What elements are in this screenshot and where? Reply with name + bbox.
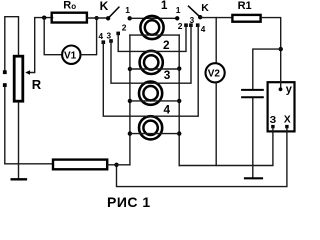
lamp 1: [140, 16, 163, 39]
wire lamp2 bottom: [130, 68, 179, 70]
wire supply loop top: [5, 17, 19, 71]
wire row1 bottom: [130, 34, 179, 36]
wire V2 top branch: [215, 18, 217, 63]
wire R2 right to bus: [108, 164, 130, 166]
wire V1 right branch: [81, 18, 97, 55]
node junction after Ro: [95, 16, 99, 20]
wire capacitor bottom to ground: [252, 98, 254, 178]
svg-text:K: K: [201, 2, 209, 14]
wire bus left: [129, 35, 131, 165]
wire x to lower rail: [117, 128, 287, 187]
ground left: [12, 178, 26, 180]
node bus right lamp4: [177, 131, 181, 135]
svg-text:4: 4: [99, 32, 104, 41]
node junction V1 tap: [42, 16, 46, 20]
node contact 1 right: [175, 16, 179, 20]
node bottom resistor junction: [114, 163, 118, 167]
wire plug lower lead: [4, 87, 6, 164]
node contact 3 left: [109, 39, 113, 43]
node x terminal: [285, 125, 288, 128]
node contact 4 left: [102, 40, 106, 44]
svg-text:o: o: [71, 2, 76, 11]
svg-text:y: y: [286, 84, 293, 96]
node contact 2 left: [116, 32, 120, 36]
node contact 3 right: [189, 23, 193, 27]
wire V2 bottom branch: [215, 83, 217, 165]
svg-text:1: 1: [161, 0, 168, 12]
wire R bottom to ground: [18, 103, 20, 179]
switch K left lever: [108, 7, 119, 18]
wire wiper arm: [27, 18, 52, 73]
node switch K right pivot: [198, 15, 202, 19]
svg-text:2: 2: [122, 23, 127, 33]
resistor R2 bottom: [53, 160, 107, 170]
svg-text:V1: V1: [64, 50, 77, 61]
wire bottom left rail: [5, 163, 53, 165]
wire row1 top: [130, 17, 178, 19]
node z terminal: [271, 125, 274, 128]
svg-text:R: R: [63, 0, 71, 12]
node bus left lamp4: [128, 131, 132, 135]
voltmeter V1: [62, 46, 80, 64]
node bus right lamp3: [177, 99, 181, 103]
wire y input: [280, 81, 282, 89]
node contact 1 left: [128, 16, 132, 20]
svg-text:R1: R1: [238, 0, 252, 12]
svg-text:V2: V2: [208, 69, 221, 80]
wire lamp2 top from contacts 2: [118, 25, 186, 51]
svg-text:1: 1: [125, 5, 130, 15]
wire K right to R1: [200, 17, 231, 19]
wire lamp4 top from contacts 4: [103, 25, 198, 116]
node switch K left pivot: [106, 16, 110, 20]
svg-text:РИС 1: РИС 1: [107, 194, 151, 210]
wire R1 to corner down: [262, 18, 281, 82]
svg-text:X: X: [284, 114, 291, 125]
oscilloscope box: [268, 82, 295, 131]
node bus left lamp3: [128, 99, 132, 103]
wire bus right: [178, 35, 180, 165]
node y terminal: [279, 87, 283, 91]
wire lamp3 top from contacts 3: [111, 25, 191, 83]
node contact 4 right: [196, 23, 200, 27]
node plug terminal lower: [3, 83, 7, 87]
svg-text:2: 2: [163, 38, 170, 52]
switch K right lever: [189, 6, 201, 17]
svg-text:4: 4: [164, 103, 171, 117]
node contact 2 right: [184, 23, 188, 27]
svg-text:3: 3: [107, 31, 112, 40]
lamp 3: [139, 82, 162, 105]
svg-text:З: З: [270, 114, 277, 126]
svg-text:1: 1: [176, 5, 181, 15]
node capacitor tap: [279, 47, 283, 51]
resistor Ro: [52, 13, 87, 23]
wire lamp3 bottom: [130, 100, 179, 102]
wire capacitor top branch: [253, 49, 281, 89]
wiper arrowhead: [25, 70, 30, 74]
svg-text:3: 3: [164, 68, 171, 82]
svg-text:2: 2: [178, 21, 183, 31]
node plug terminal upper: [3, 70, 7, 74]
wire Ro to switch K left: [87, 17, 108, 19]
ground right: [245, 177, 262, 179]
lamp 2: [140, 51, 163, 74]
voltmeter V2: [206, 63, 225, 82]
resistor R1: [232, 15, 260, 22]
wire z to common rail: [179, 128, 273, 166]
rheostat R: [14, 56, 23, 101]
node bus left lamp2: [128, 67, 132, 71]
lamp 4: [139, 116, 162, 139]
svg-text:3: 3: [190, 16, 195, 25]
wire lamp4 bottom: [130, 133, 179, 135]
wire V1 left branch: [44, 18, 62, 55]
node bus right lamp2: [177, 66, 181, 70]
svg-text:R: R: [32, 77, 42, 92]
svg-text:4: 4: [201, 25, 206, 34]
svg-text:K: K: [100, 0, 109, 13]
capacitor C: [242, 90, 263, 97]
